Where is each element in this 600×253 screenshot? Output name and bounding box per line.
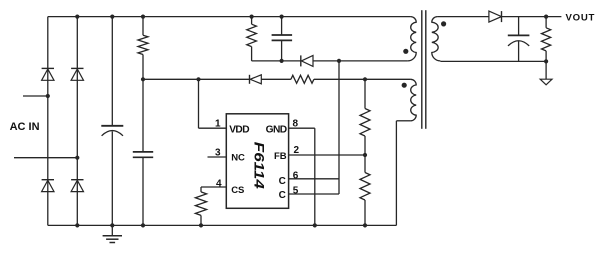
pin 1 number <box>215 119 221 130</box>
wire pin8 GND <box>289 128 315 225</box>
ground symbol output <box>540 79 552 85</box>
pin 2 number <box>294 145 300 156</box>
transformer T1 secondary winding <box>432 17 441 61</box>
pin 5 number <box>293 185 299 196</box>
node top rail junction R3 <box>250 15 254 19</box>
primary polarity dot <box>403 49 408 54</box>
node divider ground junction <box>363 223 367 227</box>
node VDD drop junction <box>196 77 200 81</box>
wire drain vertical <box>338 61 340 194</box>
node top rail junction leg2 <box>75 15 79 19</box>
wire C2 upper lead <box>142 79 144 151</box>
wire C2 lower lead <box>142 157 144 225</box>
resistor R1 <box>138 17 148 80</box>
resistor R3 snubber <box>247 17 257 61</box>
VOUT label <box>566 12 596 23</box>
node GND rail junction <box>313 223 317 227</box>
wire C4 lower lead <box>518 41 520 61</box>
wire top rail <box>48 16 411 18</box>
diode D1 <box>42 68 54 80</box>
wire bottom ground rail <box>48 224 397 226</box>
wire to output ground <box>545 61 547 79</box>
node C1 ground junction <box>110 223 114 227</box>
wire pin2 FB <box>289 154 365 156</box>
svg-text:C: C <box>279 190 286 201</box>
pin label GND <box>266 124 287 135</box>
resistor R6 divider bottom <box>360 173 370 226</box>
wire AC input line 1 <box>23 95 48 97</box>
node C2 ground junction <box>141 223 145 227</box>
resistor R4 CS <box>195 192 206 226</box>
svg-text:NC: NC <box>231 153 245 164</box>
resistor R2 <box>291 75 314 83</box>
wire bridge left leg <box>47 17 49 226</box>
wire R2 to aux winding <box>314 78 411 80</box>
wire divider mid <box>364 136 366 173</box>
wire VDD node <box>143 78 250 80</box>
pin label FB <box>274 151 287 162</box>
wire bridge right leg <box>76 17 78 226</box>
svg-text:VOUT: VOUT <box>566 12 596 23</box>
node AC line2 junction <box>75 156 79 160</box>
auxiliary polarity dot <box>402 83 407 88</box>
wire pin6 <box>289 178 339 180</box>
pin 4 number <box>216 178 222 189</box>
wire pin5 <box>289 193 339 195</box>
capacitor C1 <box>101 126 123 136</box>
AC IN label <box>10 121 40 133</box>
svg-text:C: C <box>279 176 286 187</box>
node FB junction <box>363 153 367 157</box>
svg-text:FB: FB <box>274 151 287 162</box>
svg-text:5: 5 <box>293 185 299 196</box>
wire AC input line 2 <box>14 157 77 159</box>
wire pin4 CS <box>201 187 226 192</box>
node CS resistor ground junction <box>199 223 203 227</box>
op-amp U1 F6114 body <box>226 114 288 209</box>
diode D4 <box>71 180 83 192</box>
capacitor C4 output <box>508 35 530 46</box>
pin 6 number <box>293 171 299 182</box>
capacitor C3 <box>272 35 293 40</box>
diode D2 <box>71 68 83 80</box>
wire rectifier to VOUT <box>502 16 562 18</box>
svg-text:CS: CS <box>231 185 244 196</box>
wire pin3 NC stub <box>208 156 227 158</box>
svg-text:AC IN: AC IN <box>10 121 40 133</box>
diode D3 <box>42 180 54 192</box>
svg-text:6: 6 <box>293 171 299 182</box>
wire secondary bottom <box>440 60 546 62</box>
node top rail junction R1 <box>141 15 145 19</box>
node drain junction <box>337 59 341 63</box>
node AC line1 junction <box>46 94 50 98</box>
pin label C pin6 <box>279 176 286 187</box>
transformer T1 auxiliary winding <box>411 79 417 121</box>
node snubber wire junction C3 <box>280 59 284 63</box>
resistor R5 divider top <box>360 79 370 136</box>
wire C4 upper lead <box>518 17 520 35</box>
wire secondary top <box>437 16 489 18</box>
svg-text:GND: GND <box>266 124 287 135</box>
wire aux return <box>396 121 410 226</box>
pin 8 number <box>293 119 299 130</box>
diode D7 output rectifier <box>489 11 502 22</box>
transformer core <box>422 10 426 129</box>
svg-text:F6114: F6114 <box>252 142 268 189</box>
svg-text:4: 4 <box>216 178 222 189</box>
wire C1 upper lead <box>111 17 113 126</box>
secondary polarity dot <box>441 21 446 26</box>
capacitor C2 <box>133 152 153 157</box>
diode D5 <box>250 75 262 84</box>
node top rail junction C3 <box>280 15 284 19</box>
diode D6 clamp <box>301 55 313 66</box>
wire VDD drop to pin1 <box>199 79 227 128</box>
pin label VDD <box>229 124 249 135</box>
transformer T1 primary winding <box>408 17 417 61</box>
pin label NC <box>231 153 245 164</box>
wire snubber bottom <box>252 60 408 62</box>
node bottom rail junction leg2 <box>75 223 79 227</box>
ground symbol <box>103 225 122 242</box>
node aux wire junction divider <box>363 77 367 81</box>
wire C3 lower lead <box>281 40 283 61</box>
pin label C pin5 <box>279 190 286 201</box>
node top rail junction C1 <box>110 15 114 19</box>
U1 rotated label F6114 <box>252 142 268 189</box>
svg-text:1: 1 <box>215 119 221 130</box>
node output ground junction <box>544 59 548 63</box>
pin 3 number <box>215 147 221 158</box>
wire D5 to R2 <box>261 78 291 80</box>
wire C3 upper lead <box>281 17 283 35</box>
node VOUT junction <box>544 15 548 19</box>
svg-text:VDD: VDD <box>229 124 249 135</box>
resistor R7 load <box>542 17 551 62</box>
wire C1 lower lead <box>111 131 113 225</box>
node VDD junction R1/C2 <box>141 77 145 81</box>
pin label CS <box>231 185 244 196</box>
